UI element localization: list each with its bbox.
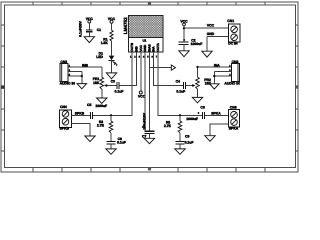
svg-text:0.1uF: 0.1uF <box>185 140 194 144</box>
svg-text:SPKA: SPKA <box>229 126 239 130</box>
svg-text:1.5K: 1.5K <box>101 41 109 45</box>
svg-text:SPKA: SPKA <box>211 112 221 116</box>
svg-text:VCC: VCC <box>138 94 146 98</box>
svg-text:0.1uF: 0.1uF <box>176 90 185 94</box>
svg-text:C5: C5 <box>87 103 91 107</box>
svg-text:C7: C7 <box>142 134 146 138</box>
svg-text:AUDIO IN: AUDIO IN <box>60 81 76 85</box>
svg-text:1000uF: 1000uF <box>191 42 203 46</box>
svg-text:+: + <box>142 125 144 129</box>
svg-text:CN1: CN1 <box>227 19 234 23</box>
svg-text:C1: C1 <box>97 28 101 32</box>
svg-text:0.1uF: 0.1uF <box>117 140 126 144</box>
svg-text:INB: INB <box>82 64 88 68</box>
svg-text:C4: C4 <box>176 79 180 83</box>
svg-text:C9: C9 <box>185 134 189 138</box>
svg-text:CN4: CN4 <box>60 105 67 109</box>
svg-text:AUDIO IN: AUDIO IN <box>224 81 240 85</box>
svg-text:2.7E: 2.7E <box>164 124 172 128</box>
svg-text:0.1uF: 0.1uF <box>115 90 124 94</box>
svg-text:INA: INA <box>214 64 220 68</box>
svg-text:LM4752: LM4752 <box>123 17 128 34</box>
svg-text:+: + <box>183 38 185 42</box>
svg-text:0.1uF/35V: 0.1uF/35V <box>79 20 83 37</box>
svg-text:1000uF: 1000uF <box>186 117 198 121</box>
svg-text:DC IN: DC IN <box>228 42 238 46</box>
svg-text:LED: LED <box>96 55 103 59</box>
svg-text:15K: 15K <box>93 81 100 85</box>
svg-text:SPKB: SPKB <box>75 112 85 116</box>
svg-text:OUTA: OUTA <box>156 42 160 51</box>
svg-text:C8: C8 <box>200 105 204 109</box>
svg-text:VCC: VCC <box>207 24 215 28</box>
svg-text:CN6: CN6 <box>230 105 237 109</box>
svg-text:GND: GND <box>207 32 215 36</box>
svg-text:+: + <box>198 111 200 115</box>
svg-text:SPKB: SPKB <box>60 127 70 131</box>
svg-text:1000uF: 1000uF <box>95 104 107 108</box>
svg-text:C3: C3 <box>111 79 115 83</box>
svg-text:2.7E: 2.7E <box>97 124 105 128</box>
svg-text:U1: U1 <box>142 38 146 42</box>
